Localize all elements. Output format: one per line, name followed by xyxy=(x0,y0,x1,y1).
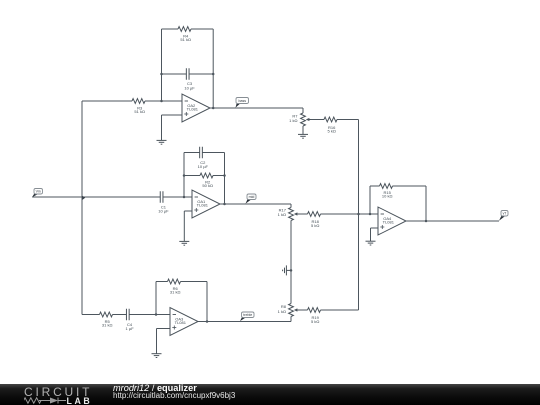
svg-text:1 kΩ: 1 kΩ xyxy=(278,212,286,217)
svg-text:LAB: LAB xyxy=(67,396,93,405)
svg-text:51 kΩ: 51 kΩ xyxy=(134,109,145,114)
svg-text:31 kΩ: 31 kΩ xyxy=(170,290,181,295)
svg-text:31 kΩ: 31 kΩ xyxy=(102,323,113,328)
svg-text:10 µF: 10 µF xyxy=(198,164,209,169)
svg-text:5 kΩ: 5 kΩ xyxy=(311,319,319,324)
svg-text:50 kΩ: 50 kΩ xyxy=(202,183,213,188)
svg-text:TL081: TL081 xyxy=(197,203,209,208)
svg-text:bass: bass xyxy=(238,99,246,103)
svg-text:TL081: TL081 xyxy=(175,320,187,325)
svg-text:1 kΩ: 1 kΩ xyxy=(289,118,297,123)
svg-text:1 kΩ: 1 kΩ xyxy=(278,309,286,314)
svg-text:10 kΩ: 10 kΩ xyxy=(382,194,393,199)
svg-text:51 kΩ: 51 kΩ xyxy=(180,37,191,42)
svg-text:TL081: TL081 xyxy=(187,107,199,112)
svg-text:treble: treble xyxy=(243,313,252,317)
svg-text:5 kΩ: 5 kΩ xyxy=(328,129,336,134)
svg-text:10 µF: 10 µF xyxy=(184,85,195,90)
svg-text:vT: vT xyxy=(503,212,507,216)
svg-text:mid: mid xyxy=(249,195,255,199)
svg-text:10 µF: 10 µF xyxy=(158,209,169,214)
svg-text:Vin: Vin xyxy=(36,190,41,194)
svg-text:1 µF: 1 µF xyxy=(126,326,135,331)
svg-text:5 kΩ: 5 kΩ xyxy=(311,223,319,228)
svg-text:TL081: TL081 xyxy=(383,220,395,225)
